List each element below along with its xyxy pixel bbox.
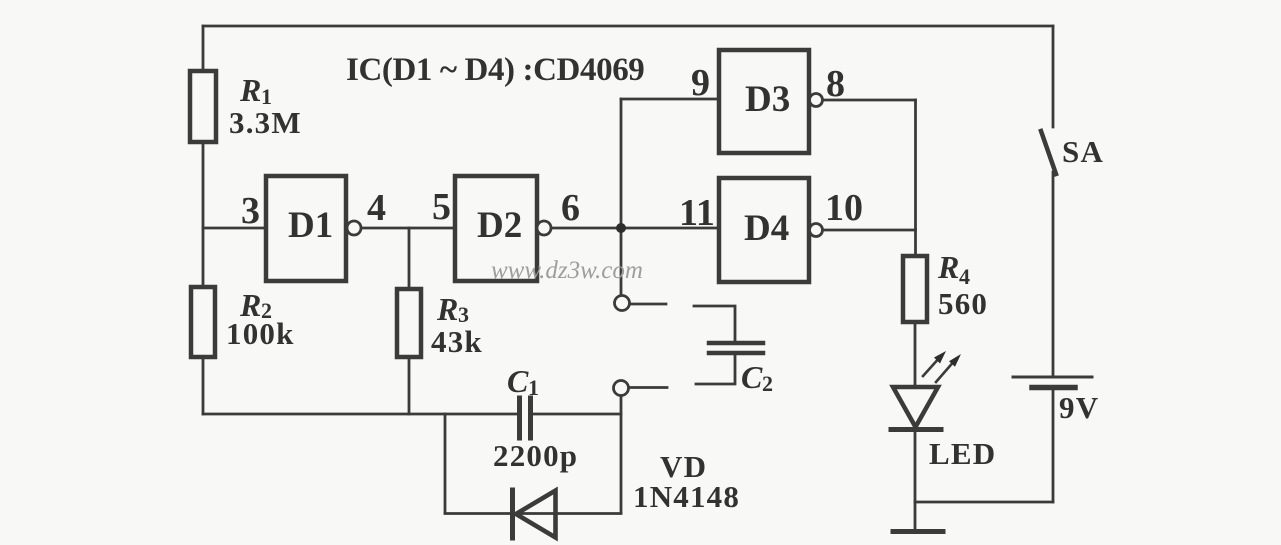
inverter D4 output bubble	[810, 224, 823, 237]
wire contact bottom segment b from C2	[696, 355, 735, 384]
resistor R3	[397, 289, 421, 357]
wire D3 output	[823, 99, 916, 102]
svg-text:www.dz3w.com: www.dz3w.com	[491, 257, 643, 284]
svg-text:10: 10	[825, 187, 863, 229]
wire SA drop from top rail	[1052, 26, 1055, 127]
wire D3 input feed	[621, 98, 719, 101]
inverter D1	[266, 176, 346, 281]
svg-text:D1: D1	[288, 205, 333, 246]
svg-text:3.3M: 3.3M	[229, 105, 302, 140]
svg-text:5: 5	[432, 186, 451, 228]
svg-text:D4: D4	[744, 208, 789, 249]
svg-text:IC(D1 ~ D4) :CD4069: IC(D1 ~ D4) :CD4069	[346, 52, 646, 88]
svg-text:6: 6	[561, 187, 580, 229]
svg-text:9V: 9V	[1059, 390, 1099, 425]
wire LED to bottom node	[914, 429, 917, 502]
junction node after D2	[616, 223, 626, 233]
LED light arrow 1	[923, 356, 941, 376]
svg-text:43k: 43k	[431, 324, 483, 359]
svg-text:100k: 100k	[226, 316, 295, 351]
LED arrowhead 2	[949, 354, 961, 367]
inverter D3	[719, 50, 809, 153]
svg-text:D3: D3	[745, 79, 790, 120]
LED triangle	[893, 387, 938, 427]
svg-text:LED: LED	[929, 436, 996, 471]
battery plus plate	[1013, 376, 1092, 379]
LED light arrow 2	[936, 359, 956, 382]
battery minus plate	[1032, 385, 1075, 391]
wire contact top segment a	[630, 303, 666, 306]
inverter D2 output bubble	[537, 221, 551, 235]
svg-text:4: 4	[367, 187, 386, 229]
wire left vertical rail	[202, 26, 205, 414]
svg-text:C: C	[507, 363, 529, 399]
wire bottom rail right of C1	[534, 413, 621, 416]
capacitor C1 plates	[517, 398, 522, 438]
resistor R4	[903, 256, 927, 322]
wire D4 output	[823, 229, 916, 232]
resistor R2	[191, 287, 215, 357]
svg-text:1: 1	[528, 375, 539, 400]
svg-text:8: 8	[826, 63, 845, 105]
wire top rail	[203, 25, 1053, 28]
svg-text:560: 560	[938, 286, 988, 321]
wire battery minus to bottom node	[1052, 388, 1055, 502]
wire node vertical to D3 input row	[620, 99, 623, 295]
switch SA blade	[1041, 131, 1056, 174]
wire pin3 input to D1	[203, 227, 266, 230]
ground stub	[914, 502, 917, 531]
inverter D1 output bubble	[347, 221, 361, 235]
inverter D3 output bubble	[810, 94, 823, 107]
inverter D2	[455, 176, 537, 281]
wire diode branch left drop	[444, 414, 447, 513]
wire contact top segment b to C2	[694, 306, 735, 341]
wire right mid vertical to R4	[914, 100, 917, 256]
svg-text:9: 9	[691, 62, 710, 104]
touch contact circle upper	[615, 296, 630, 311]
svg-text:1N4148: 1N4148	[633, 479, 740, 514]
svg-text:C: C	[741, 359, 763, 395]
wire touch-plate vertical	[620, 396, 623, 513]
diode VD body	[510, 490, 515, 538]
inverter D4	[719, 178, 809, 282]
svg-text:3: 3	[241, 190, 260, 232]
svg-text:R: R	[436, 291, 458, 327]
wire D2 output to D4 input	[551, 227, 719, 230]
svg-text:R: R	[937, 249, 959, 285]
wire D1 output to D2 input	[361, 227, 455, 230]
wire bottom-right rail	[915, 501, 1053, 504]
capacitor C2 plates	[709, 341, 763, 346]
svg-text:R: R	[239, 72, 261, 108]
svg-text:SA: SA	[1062, 134, 1104, 169]
LED cathode bar	[891, 427, 941, 432]
svg-text:D2: D2	[477, 205, 522, 246]
wire diode branch horizontal	[445, 512, 621, 515]
wire R4 to LED	[914, 322, 917, 387]
LED arrowhead 1	[934, 351, 946, 364]
svg-text:2200p: 2200p	[493, 438, 578, 473]
ground bar	[893, 529, 943, 534]
wire R3 tee from D1-D2 net	[408, 228, 411, 414]
wire SA to battery	[1052, 172, 1055, 376]
svg-text:2: 2	[762, 371, 773, 396]
wire bottom rail left of C1	[203, 413, 516, 416]
touch contact circle lower	[614, 381, 629, 396]
resistor R1	[190, 71, 216, 142]
svg-text:11: 11	[679, 192, 715, 234]
wire contact bottom segment a	[628, 386, 667, 389]
